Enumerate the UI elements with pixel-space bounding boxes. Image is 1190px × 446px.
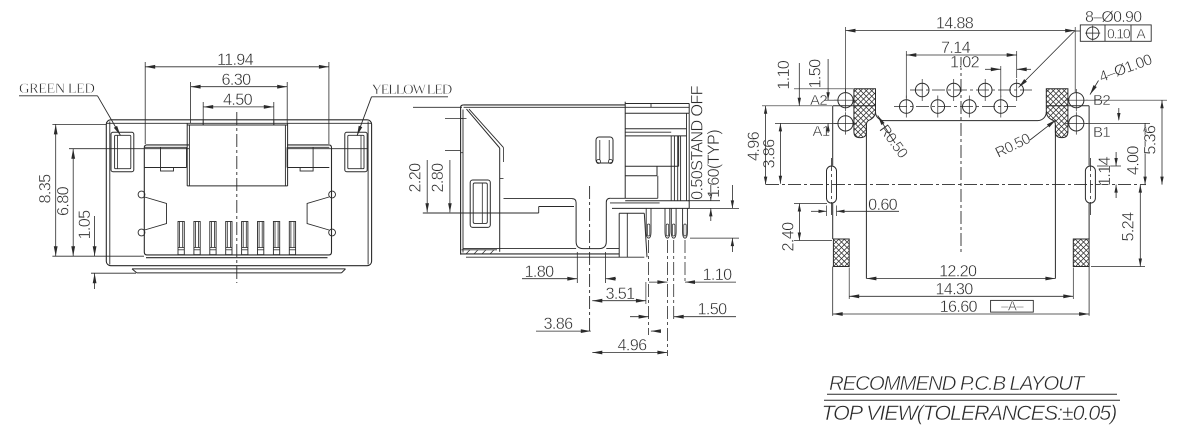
dim 1.10 side <box>649 281 667 283</box>
pin hole top row 2 <box>947 83 961 97</box>
contact pin 3 <box>210 222 216 255</box>
svg-text:8–Ø0.90: 8–Ø0.90 <box>1085 9 1142 26</box>
dim 3.86 pcb <box>775 122 838 124</box>
dim 4.96 side <box>592 352 667 354</box>
pin hole top row 1 <box>915 83 929 97</box>
contact pin 7 <box>273 222 279 255</box>
svg-text:A: A <box>1136 25 1146 41</box>
latch window left mark <box>202 121 204 125</box>
svg-text:0.50STAND OFF: 0.50STAND OFF <box>689 85 707 199</box>
rear second band <box>625 128 686 130</box>
side body bottom inner line <box>463 248 576 250</box>
LED hole A2 <box>838 93 853 108</box>
svg-text:B1: B1 <box>1093 124 1110 141</box>
dim 16.60 with datum A <box>833 313 1089 315</box>
green LED window outer <box>111 132 134 171</box>
side body inner left edge <box>462 110 464 253</box>
svg-text:14.30: 14.30 <box>935 281 973 299</box>
dim 6.30 <box>190 82 192 123</box>
side bottom shield fold <box>462 249 498 251</box>
pin hole bottom row 4 <box>994 100 1008 114</box>
front housing right lip line <box>367 122 369 265</box>
dim 2.20 <box>413 106 462 108</box>
svg-text:A1: A1 <box>813 123 830 140</box>
svg-text:2.80: 2.80 <box>429 163 447 193</box>
dim 3.51 <box>592 300 646 302</box>
svg-text:4.96: 4.96 <box>745 131 763 161</box>
svg-text:YELLOW LED: YELLOW LED <box>372 82 452 98</box>
side LED window inner <box>473 183 487 223</box>
front housing top lip line <box>106 122 371 124</box>
side body bottom edge <box>461 253 620 255</box>
svg-text:12.20: 12.20 <box>939 263 977 281</box>
svg-text:RECOMMEND P.C.B LAYOUT: RECOMMEND P.C.B LAYOUT <box>829 372 1086 395</box>
front housing outer shell <box>106 120 371 266</box>
latch window right mark <box>273 121 275 125</box>
svg-text:5.24: 5.24 <box>1120 212 1138 242</box>
pin 4 extension <box>684 240 686 284</box>
svg-text:0.10: 0.10 <box>1107 26 1131 42</box>
pin 2 extension <box>666 240 668 356</box>
svg-text:1.02: 1.02 <box>950 54 980 72</box>
pin tip 3 <box>671 208 676 238</box>
side view centerline <box>589 186 591 334</box>
pin hole bottom row 3 <box>963 100 977 114</box>
front housing left lip line <box>109 122 111 265</box>
svg-text:14.88: 14.88 <box>936 15 974 33</box>
svg-text:1.50: 1.50 <box>807 59 825 89</box>
contact pin 4 <box>226 222 232 255</box>
pin hole top row 4 <box>1010 83 1024 97</box>
dim 5.36 <box>1086 99 1167 101</box>
front jack cavity opening <box>144 145 331 255</box>
bottom shield tab hatched left <box>833 239 849 267</box>
cavity upper-right block <box>287 146 329 148</box>
front latch block <box>186 123 188 186</box>
LED hole B2 <box>1069 93 1084 108</box>
pin tip 2 <box>665 208 670 238</box>
side view of connector <box>406 85 739 356</box>
side body right edge <box>624 102 626 199</box>
side body outer top edge <box>464 104 625 106</box>
vertical centerline <box>960 57 962 252</box>
dim 6.80 <box>69 148 110 150</box>
dim 11.94 <box>144 62 146 144</box>
side inner shelf <box>504 198 573 200</box>
bottom shield tab hatched right <box>1073 239 1089 267</box>
rear top band <box>625 103 689 105</box>
yellow LED window inner <box>348 135 364 168</box>
dim 8.35 <box>52 123 106 125</box>
rear foot block <box>618 213 620 257</box>
pin 1 extension <box>648 240 650 335</box>
rear wall <box>686 113 688 201</box>
svg-text:–A–: –A– <box>1001 298 1024 313</box>
side bottom U notch <box>572 198 610 248</box>
dim 7.14 <box>905 51 907 98</box>
outline right side edge <box>1088 106 1090 166</box>
dim 0.50 STAND OFF <box>688 200 720 202</box>
cavity upper-left block <box>144 146 186 148</box>
side inner lower shelf <box>423 212 539 214</box>
outline top edge right <box>1046 105 1089 107</box>
svg-text:3.51: 3.51 <box>606 285 636 303</box>
dim 0.60 <box>826 206 828 217</box>
svg-text:3.86: 3.86 <box>544 315 574 333</box>
svg-text:16.60: 16.60 <box>940 298 978 316</box>
svg-text:3.86: 3.86 <box>761 139 779 169</box>
dim 1.50 pcb <box>824 99 838 101</box>
R0.50 fillet and inner outline <box>876 112 1047 121</box>
side chamfer edge <box>467 109 500 148</box>
leader to pin hole <box>1075 30 1081 32</box>
pin hole bottom row 2 <box>931 100 945 114</box>
side latch hook detail <box>596 137 613 163</box>
dim 12.20 <box>866 278 1055 280</box>
dim 4.00 <box>1086 122 1150 124</box>
svg-text:GREEN LED: GREEN LED <box>19 81 94 97</box>
dim 1.14 <box>1097 165 1121 167</box>
B row spacing arrow <box>1118 108 1120 120</box>
svg-text:4.00: 4.00 <box>1125 146 1143 176</box>
pin tip 1 <box>646 208 651 238</box>
svg-text:6.30: 6.30 <box>222 71 252 89</box>
rear pin legs upper <box>670 136 672 201</box>
svg-text:1.80: 1.80 <box>525 263 555 281</box>
front view vertical centerline <box>236 112 238 283</box>
svg-text:TOP VIEW(TOLERANCES:±0.05): TOP VIEW(TOLERANCES:±0.05) <box>822 401 1117 425</box>
rear middle block <box>678 136 680 166</box>
LED hole A1 <box>838 116 853 131</box>
pin tip 4 <box>683 208 688 238</box>
dim 1.50 side <box>630 316 649 318</box>
pin 3 extension <box>673 240 675 320</box>
rear small block <box>656 166 658 176</box>
svg-text:4.50: 4.50 <box>223 91 253 109</box>
side body inner top edge <box>464 106 625 108</box>
PCB layout view <box>745 9 1167 316</box>
dim 14.30 <box>848 268 850 300</box>
yellow LED window outer <box>345 132 367 171</box>
svg-text:1.10: 1.10 <box>775 60 793 90</box>
front view: RJ45 jack front <box>19 51 452 289</box>
standoff plate <box>625 200 689 202</box>
svg-text:1.50: 1.50 <box>698 301 728 319</box>
pin hole bottom row 1 <box>900 100 914 114</box>
dim 1.05 <box>94 216 96 256</box>
svg-text:2.20: 2.20 <box>406 163 424 193</box>
shield tab hole hatched right <box>1046 89 1068 138</box>
left latch spring <box>138 191 145 198</box>
inner outline left vertical <box>865 125 867 279</box>
svg-text:0.60: 0.60 <box>868 196 898 214</box>
svg-text:1.05: 1.05 <box>76 210 94 240</box>
svg-text:1.10: 1.10 <box>703 266 733 284</box>
front face shelf line <box>110 148 189 150</box>
side front face vertical <box>499 148 501 252</box>
dim 3.86 side <box>536 330 591 332</box>
dim 5.24 <box>1091 266 1145 268</box>
dim 14.88 <box>845 27 847 92</box>
svg-text:4.96: 4.96 <box>618 337 648 355</box>
side LED window outer <box>470 180 490 227</box>
top hole row centerline <box>910 89 1032 91</box>
svg-text:6.80: 6.80 <box>55 186 73 216</box>
right latch spring <box>329 191 336 198</box>
shield tab hole hatched left <box>854 89 876 138</box>
dim 2.80 <box>449 160 451 212</box>
svg-text:1.60(TYP): 1.60(TYP) <box>705 130 723 198</box>
left mounting slot <box>827 166 837 203</box>
outline top edge left <box>833 105 876 107</box>
dim 1.80 <box>576 252 578 283</box>
contact pin 2 <box>194 222 200 255</box>
svg-text:5.36: 5.36 <box>1141 125 1159 155</box>
outline left side edge <box>832 106 834 166</box>
contact pin 6 <box>258 222 264 255</box>
dim 1.60 TYP <box>690 237 739 239</box>
bottom hole row centerline <box>894 106 1016 108</box>
contact pin 1 <box>178 222 184 255</box>
horizontal centerline <box>766 184 1146 186</box>
true position tolerance frame <box>1080 25 1151 41</box>
svg-text:8.35: 8.35 <box>37 174 55 204</box>
green LED window inner <box>115 135 131 168</box>
dim 4.50 <box>202 102 204 125</box>
pin hole top row 3 <box>978 83 992 97</box>
dim 1.10 pcb <box>794 88 853 90</box>
inner outline right vertical <box>1054 125 1056 279</box>
cavity bottom double line <box>146 257 328 259</box>
svg-text:1.14: 1.14 <box>1096 157 1114 187</box>
contact pin 5 <box>242 222 248 255</box>
LED hole B1 <box>1069 116 1084 131</box>
contact pin 8 <box>289 222 295 255</box>
svg-text:2.40: 2.40 <box>779 222 797 252</box>
side body outer left edge <box>460 108 462 255</box>
svg-text:11.94: 11.94 <box>217 51 254 69</box>
dim 2.40 <box>794 203 827 205</box>
right mounting slot <box>1085 166 1095 203</box>
dim 1.02 <box>1000 66 1002 97</box>
front bottom standoff plate <box>132 268 346 270</box>
dim 4.96 pcb <box>762 105 832 107</box>
